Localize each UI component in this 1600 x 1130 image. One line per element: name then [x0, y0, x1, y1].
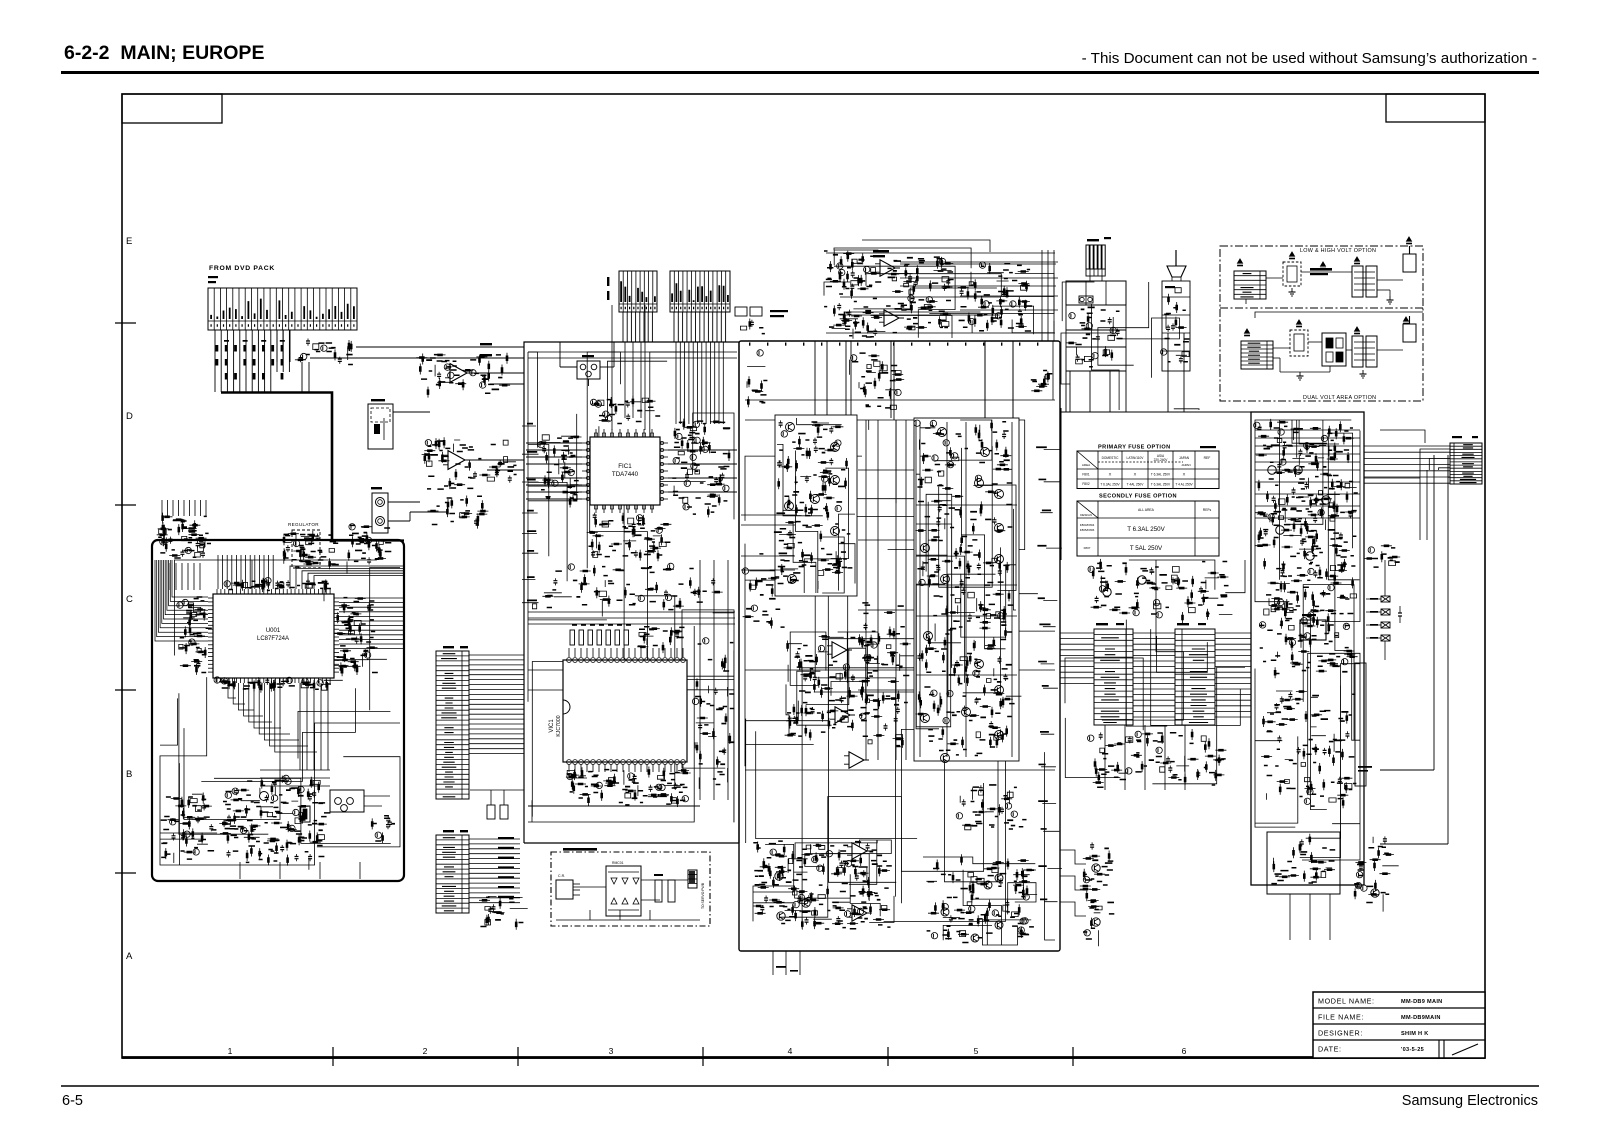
wire drops into amp block [815, 341, 1013, 418]
option wires crossover [1255, 312, 1423, 318]
svg-text:6: 6 [1182, 1046, 1187, 1056]
regulator cluster [284, 531, 330, 569]
op-amp IC23 [835, 707, 850, 723]
U001 pin labels left [180, 610, 208, 675]
option1 wires [1266, 277, 1283, 279]
wire top loop [862, 240, 990, 252]
label CN803 AC [1452, 436, 1462, 438]
svg-text:TDA7440: TDA7440 [612, 471, 639, 478]
svg-text:DESIGN: DESIGN [1080, 513, 1092, 517]
transistor Q404 [811, 495, 820, 504]
svg-text:U001: U001 [266, 628, 281, 634]
svg-text:REFs: REFs [1203, 508, 1212, 512]
psu inner box cluster [1273, 834, 1335, 882]
amp right cell parts [915, 420, 1021, 748]
option2 dashed relay [1290, 330, 1308, 356]
title block row divider [1313, 1007, 1485, 1009]
IC FIC1 TDA7440 body [590, 437, 660, 505]
psu block outline [1251, 412, 1364, 885]
amp right cell box [914, 418, 1019, 761]
connector table CN501 [436, 651, 469, 799]
svg-text:LOW & HIGH VOLT OPTION: LOW & HIGH VOLT OPTION [1300, 248, 1376, 254]
wires VIC1 top [569, 648, 683, 657]
amp inner long wires [745, 420, 1055, 940]
component cluster headphone amp left [837, 273, 877, 333]
IR receiver C.R. box [556, 880, 573, 899]
frame bottom edge heavy [122, 1056, 1485, 1059]
transistor Q7a outside amp [1092, 864, 1100, 872]
title block row divider [1313, 1039, 1485, 1041]
crystal X001 symbol [300, 806, 310, 822]
option1 warning triangle A [1238, 259, 1243, 263]
cluster above CN701 [1091, 559, 1233, 623]
transistor bottom-right [941, 908, 949, 916]
regulator dashed box [292, 530, 320, 568]
op-amp IC24 [849, 752, 864, 768]
bus wire from DVD connector [221, 393, 332, 541]
wire DVD audio R to FIC1 block [310, 357, 524, 359]
wire fan U001 left [172, 560, 208, 597]
wire fan U001 bottom [228, 683, 236, 698]
wires CN701-CN702 [1133, 632, 1175, 634]
headphone right bundle [1042, 250, 1054, 341]
audio block outline [524, 342, 739, 560]
svg-text:MM-DB9 MAIN: MM-DB9 MAIN [1401, 999, 1443, 1005]
wire U801A output to block [472, 372, 524, 374]
connector CN804 right [1450, 443, 1482, 484]
transformer T801 pin strip [1086, 269, 1105, 276]
transistor Q860 [1371, 889, 1379, 897]
transistor bottom-right [984, 881, 992, 889]
psu regulator IC [1300, 620, 1326, 640]
svg-text:E: E [126, 236, 132, 247]
transistor bottom-right [995, 921, 1003, 929]
option1 warning triangles [1290, 252, 1295, 256]
cluster below CN701 [1093, 729, 1227, 785]
transistor bottom-right [971, 934, 979, 942]
title block box [1313, 992, 1485, 1058]
transistor bottom-left [802, 899, 810, 907]
frame column tick [517, 1047, 519, 1066]
svg-text:5: 5 [974, 1046, 979, 1056]
svg-text:LATIN/110V: LATIN/110V [1127, 456, 1145, 460]
IC VIC1 pins [567, 658, 572, 663]
remocon wires [573, 886, 606, 888]
wire bus to micro block [332, 539, 404, 541]
reset circuit cluster [166, 793, 212, 864]
transistor Q504 [995, 490, 1004, 499]
title block slash mark [1452, 1044, 1478, 1055]
amp right edge taps [1040, 450, 1062, 902]
svg-text:REGULATOR: REGULATOR [288, 522, 319, 527]
component cluster amp bottom-left [753, 842, 890, 930]
svg-text:B: B [126, 769, 132, 780]
transistor Q407 [788, 575, 797, 584]
frame row tick [115, 504, 136, 506]
svg-text:1: 1 [228, 1046, 233, 1056]
svg-text:T 5AL 250V: T 5AL 250V [1130, 545, 1163, 552]
label F808 [1358, 766, 1372, 768]
component cluster phones RC [460, 513, 465, 518]
component cluster around U802A [422, 437, 516, 489]
psu top wires [1255, 430, 1360, 518]
svg-text:DOMESTIC: DOMESTIC [1102, 456, 1120, 460]
component cluster outside amp right [1083, 877, 1102, 936]
op-amp IC22 [832, 642, 847, 658]
fuse F806 [1381, 635, 1390, 641]
amp top left parts [747, 366, 765, 407]
svg-text:X: X [1183, 472, 1186, 477]
wires VIC1 bottom [569, 764, 683, 772]
fuse F803 [1381, 596, 1390, 602]
svg-text:FILE NAME:: FILE NAME: [1318, 1013, 1364, 1022]
amp left cell parts [779, 420, 847, 589]
wire fan U001 bottom long [300, 683, 328, 770]
speaker SP801 [1167, 266, 1186, 277]
wires bottom exits [240, 862, 360, 879]
connector REM01 jack [330, 790, 364, 812]
frame column tick [887, 1047, 889, 1066]
option2 selector box [1322, 333, 1346, 366]
amp block top pin ticks [749, 343, 750, 346]
wires CN502 right [469, 838, 520, 840]
MIC jack J801 [368, 404, 393, 449]
component cluster headphone amp mid [888, 257, 953, 328]
VIC1 top resistor bank [570, 630, 575, 645]
wires into FIC1 left [526, 443, 582, 499]
label CN702 [1177, 623, 1189, 625]
option1 dashed relay [1283, 262, 1301, 286]
junction boxes right of CN803 [735, 307, 747, 316]
frame column tick [1072, 1047, 1074, 1066]
IC FIC1 pins [582, 442, 590, 444]
wires CN803 pins down [674, 312, 726, 342]
U001 pin labels top [231, 578, 326, 601]
svg-text:F802: F802 [1082, 482, 1089, 486]
wire fan U001 top right [290, 566, 404, 589]
headphone amp wires [824, 248, 1054, 338]
secondly fuse option table [1077, 501, 1219, 556]
frame row tick [115, 689, 136, 691]
audio block inner wires [528, 352, 734, 822]
option1 fuse label [1310, 268, 1332, 271]
schematic frame border [122, 94, 1485, 1058]
svg-text:4: 4 [788, 1046, 793, 1056]
label SPK T801 [1087, 239, 1099, 241]
svg-text:MODEL NAME:: MODEL NAME: [1318, 997, 1375, 1006]
svg-text:X: X [1109, 472, 1112, 477]
label SP801 [1165, 286, 1175, 288]
transistor Q7b outside amp [1092, 918, 1100, 926]
svg-text:F807: F807 [1084, 546, 1091, 550]
svg-text:T 6.3AL 250V: T 6.3AL 250V [1151, 483, 1171, 487]
option2 plug [1403, 324, 1416, 342]
amp mid-left labels [743, 564, 782, 629]
amplifier block outline [739, 341, 1060, 951]
power bus verticals [1060, 408, 1062, 560]
connector CN802 [619, 271, 657, 312]
primary fuse table small note [1200, 446, 1216, 448]
wires power entry drop [1070, 371, 1110, 412]
svg-text:MM-DB9MAIN: MM-DB9MAIN [1401, 1015, 1441, 1021]
VIC1 bottom components [566, 767, 691, 808]
wire fan U001 top [217, 555, 219, 589]
mid area wires [1065, 560, 1245, 784]
option2 wires [1273, 347, 1290, 349]
svg-text:A: A [126, 951, 133, 962]
svg-text:C: C [126, 594, 133, 605]
micro block outline [152, 540, 404, 881]
wire CN804 top [1380, 430, 1425, 443]
svg-text:PRIMARY FUSE OPTION: PRIMARY FUSE OPTION [1098, 445, 1171, 451]
svg-text:T 6.3AL 250V: T 6.3AL 250V [1151, 473, 1171, 477]
remocon connector 4p [688, 870, 697, 888]
psu top components [1255, 419, 1357, 559]
speaker SP801 stem [1175, 250, 1177, 266]
amp right cell rails [920, 422, 1012, 757]
transformer T801 windings [1086, 245, 1089, 269]
transistor Q515 [962, 708, 971, 717]
wires psu to bundle [1364, 477, 1420, 479]
option2 ground symbols [1361, 370, 1365, 378]
title block date cell dividers [1438, 1040, 1440, 1058]
transistor Q509 [924, 632, 933, 641]
transistor Q508 [995, 555, 1004, 564]
AC ladder box [1066, 281, 1126, 305]
svg-text:REF: REF [1204, 456, 1211, 460]
svg-text:X: X [1134, 472, 1137, 477]
transistor Q511 [995, 686, 1004, 695]
fuse F805 [1381, 622, 1390, 628]
svg-text:C.R.: C.R. [558, 874, 565, 878]
key matrix RMC01 box [606, 866, 641, 916]
svg-text:6-5: 6-5 [62, 1093, 83, 1109]
transistor Q514 [941, 754, 950, 763]
option1 transformer [1352, 266, 1363, 297]
wires CN702 to psu [1215, 632, 1251, 634]
wires below connectors [1105, 725, 1185, 790]
U001 pin labels right [355, 606, 371, 654]
label CN701 [1096, 623, 1108, 625]
audio block left edge taps [522, 426, 539, 603]
label CN501 [443, 646, 454, 648]
svg-text:TO SERVO PWB: TO SERVO PWB [701, 882, 705, 909]
svg-text:KJC7000: KJC7000 [556, 715, 562, 736]
op-amp IC25 [852, 843, 867, 859]
wire block bottom bus [528, 805, 700, 807]
psu inner box [1267, 832, 1340, 894]
resistor array bank A [159, 529, 205, 557]
audio block right strip wires [700, 560, 728, 800]
svg-text:FROM DVD PACK: FROM DVD PACK [209, 265, 275, 272]
wires headphone amp bus [830, 340, 1055, 342]
FIC1 right components [673, 421, 729, 510]
psu inner wires [1255, 420, 1360, 860]
wires from CN801 pins [215, 330, 271, 392]
svg-text:SHIM H K: SHIM H K [1401, 1031, 1429, 1037]
wires CN804 bend bundle [1420, 449, 1450, 470]
U001 pin labels bottom [219, 677, 343, 693]
amp top mid parts [850, 356, 905, 399]
right bundle vertical A [1433, 455, 1435, 770]
op-amp HIC1B [884, 310, 899, 326]
svg-text:LC87F724A: LC87F724A [257, 636, 289, 642]
IC U001 pins [216, 589, 218, 594]
micro block inner wires [160, 560, 400, 865]
net label row right of CN803 [770, 310, 788, 312]
svg-text:ALL AREA: ALL AREA [1138, 508, 1155, 512]
wires CN501 to audio block [469, 654, 524, 656]
FIC1 pin name labels left [538, 436, 582, 507]
frame row tick [115, 872, 136, 874]
wire bundle into bank A [162, 500, 206, 516]
svg-text:F803/F804: F803/F804 [1080, 523, 1095, 527]
op-amp IC26 [852, 905, 867, 921]
component cluster below CN801 [295, 339, 351, 364]
IC VIC1 KJC7000 body [563, 660, 687, 762]
fuse F801 with holder [577, 361, 600, 379]
wire DVD audio L to FIC1 block [356, 346, 524, 348]
connector CN801 FROM DVD PACK [208, 288, 357, 330]
psu bottom-right cluster [1355, 836, 1399, 911]
transistor Q501 [938, 428, 947, 437]
component cluster amp bottom-right B [926, 854, 1037, 939]
power entry wires [1061, 282, 1199, 410]
footer rule [61, 1085, 1539, 1087]
transistor Q405 [785, 502, 794, 511]
psu lower cluster [1261, 691, 1352, 808]
transistor bottom-left [777, 912, 785, 920]
volt option dashed box [1220, 246, 1423, 401]
wire long drop pin 14 [301, 362, 303, 393]
wires CN804 to psu [1364, 445, 1450, 447]
fuse F804 [1381, 609, 1390, 615]
transistor bottom-left [775, 872, 783, 880]
wire F801 drop [559, 342, 561, 367]
svg-text:3: 3 [609, 1046, 614, 1056]
wires bank A to micro [170, 563, 200, 590]
svg-text:SECONDLY FUSE OPTION: SECONDLY FUSE OPTION [1099, 494, 1177, 500]
frame corner box top-right [1386, 94, 1485, 122]
svg-text:6-2-2 MAIN; EUROPE: 6-2-2 MAIN; EUROPE [64, 42, 264, 64]
audio block mid bus [528, 612, 735, 624]
option2 connector [1241, 341, 1273, 369]
svg-text:Samsung Electronics: Samsung Electronics [1402, 1093, 1538, 1109]
wires fuse chain [1384, 560, 1386, 596]
transistor Q510 [975, 660, 984, 669]
option1 plug [1403, 254, 1416, 272]
svg-text:F805/F806: F805/F806 [1080, 528, 1095, 532]
psu right component row [1364, 546, 1401, 562]
wire fan U001 right [339, 597, 404, 599]
net labels CN502 [498, 837, 514, 839]
wires FIC1 right out [668, 450, 737, 492]
svg-text:T 4AL 250V: T 4AL 250V [1127, 483, 1145, 487]
audio block verticals [612, 305, 645, 430]
label HDA L AMP [873, 250, 889, 252]
transistor Q401 [786, 423, 795, 432]
component cluster around U801A [416, 353, 510, 398]
frame column tick [332, 1047, 334, 1066]
label CN502 [443, 830, 454, 832]
right bundle elbow [1380, 843, 1448, 845]
op-amp U802A [448, 451, 465, 470]
option1 connector [1234, 271, 1266, 299]
audio block right strip parts [695, 655, 730, 789]
psu transistors [1268, 466, 1277, 475]
wire jack to cluster [388, 501, 420, 503]
cluster right of REM01 [372, 816, 390, 843]
transistor Q507 [941, 575, 950, 584]
svg-text:220-240V: 220-240V [1154, 458, 1169, 462]
key matrix diodes [611, 878, 617, 884]
audio block top bus [528, 352, 737, 358]
resistor cluster below CN502 [488, 907, 495, 912]
frame column tick [702, 1047, 704, 1066]
wire T801 to ladder [1090, 276, 1102, 281]
amp mid-left wires [741, 515, 795, 570]
transistor above CN701 [1103, 588, 1111, 596]
transistor Q403 [831, 476, 840, 485]
connector CN803 [670, 271, 730, 312]
cap C850 [1398, 612, 1402, 614]
amp mid column parts [862, 613, 911, 748]
wire drops into amp block [827, 341, 1013, 420]
header rule [61, 71, 1539, 74]
amp top-right corner parts [1031, 371, 1049, 390]
svg-text:VIC1: VIC1 [549, 719, 555, 733]
frame row tick [115, 322, 136, 324]
psu right narrow box [1355, 663, 1366, 786]
transistor Q512 [921, 714, 930, 723]
component cluster amp bottom-right A [960, 785, 1012, 825]
wires amp to cluster [1060, 850, 1086, 864]
volt option divider [1220, 307, 1423, 309]
crystal X001 circuit [219, 776, 326, 870]
svg-text:AREA: AREA [1082, 463, 1090, 467]
amp center verticals [866, 420, 906, 760]
connector table CN701 [1094, 629, 1133, 725]
connector table CN702 [1175, 629, 1215, 725]
op-amp column parts [785, 634, 880, 740]
primary fuse option table [1077, 451, 1219, 489]
remocon board dashed outline [551, 852, 710, 926]
resistor row R801-R812 [216, 345, 219, 352]
svg-text:F801: F801 [1082, 473, 1089, 477]
component cluster mid block [542, 565, 722, 616]
option2 warning triangle A [1245, 329, 1250, 333]
psu bottom exit wires [1290, 894, 1330, 940]
right bundle vertical B [1447, 455, 1449, 844]
psu mid cluster [1265, 558, 1358, 678]
transistor Q513 [995, 731, 1004, 740]
frame corner box top-left [122, 94, 222, 123]
svg-text:JAPAN: JAPAN [1179, 456, 1190, 460]
svg-text:'03-5-25: '03-5-25 [1401, 1047, 1424, 1053]
svg-text:DESIGNER:: DESIGNER: [1318, 1029, 1363, 1038]
svg-text:RMC01: RMC01 [612, 861, 624, 865]
transistor Q402 [831, 443, 840, 452]
component cluster headphone amp right [958, 263, 1030, 333]
transistor Q506 [921, 544, 930, 553]
ladder components [1069, 313, 1117, 364]
svg-text:T 6.3AL 250V: T 6.3AL 250V [1100, 483, 1120, 487]
svg-text:T 4 AL 250V: T 4 AL 250V [1175, 483, 1193, 487]
transistor Q502 [981, 448, 990, 457]
svg-text:JAPAN: JAPAN [1181, 463, 1190, 467]
title block row divider [1313, 1023, 1485, 1025]
label CN801 ANA [208, 276, 218, 278]
